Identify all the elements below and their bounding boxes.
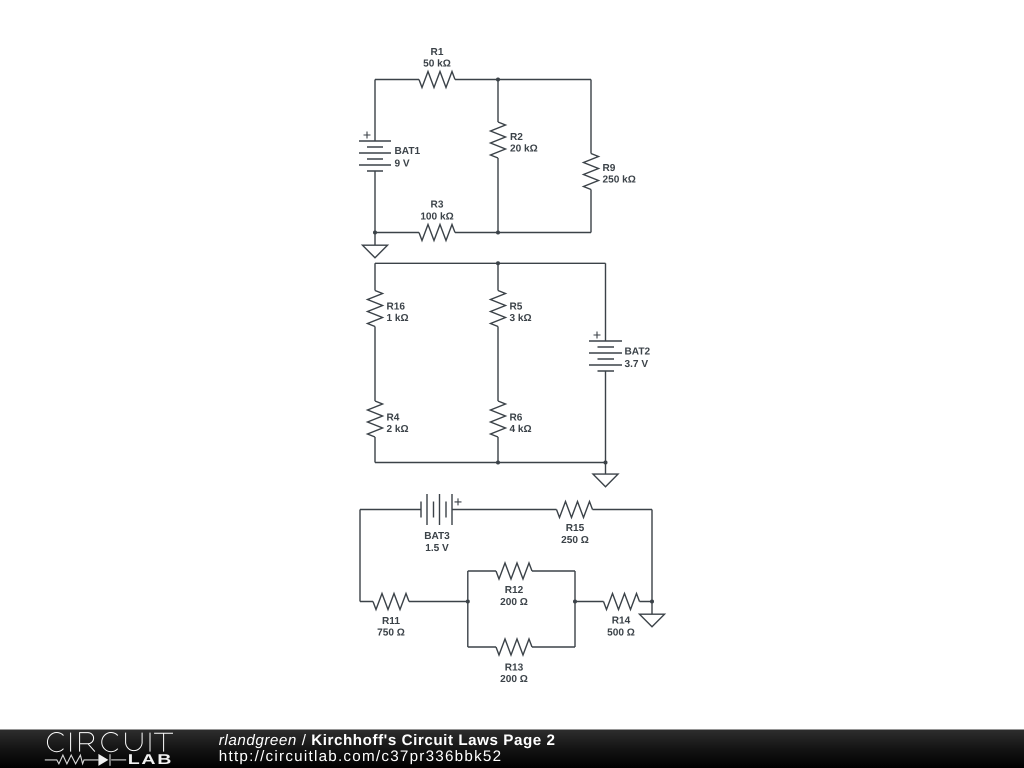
svg-text:R5: R5	[510, 302, 523, 313]
wire bottom left circuit 3	[360, 601, 468, 603]
svg-text:20 kΩ: 20 kΩ	[510, 144, 538, 155]
resistor R1	[419, 72, 455, 88]
svg-text:50 kΩ: 50 kΩ	[423, 59, 451, 70]
svg-text:250 Ω: 250 Ω	[561, 535, 589, 546]
svg-text:R13: R13	[505, 663, 524, 674]
ground circuit 3	[651, 602, 653, 615]
wire bottom rail circuit 2	[375, 462, 606, 464]
svg-text:R11: R11	[382, 616, 400, 627]
resistor R4	[368, 401, 383, 437]
node junction dot	[373, 231, 377, 235]
resistor R5	[491, 291, 506, 327]
ground circuit 1	[374, 233, 376, 246]
node junction dot	[650, 600, 654, 604]
svg-text:R14: R14	[612, 616, 631, 627]
svg-text:R9: R9	[603, 163, 616, 174]
plus sign BAT1	[364, 132, 371, 139]
node junction dot	[496, 78, 500, 82]
svg-text:4 kΩ: 4 kΩ	[510, 424, 532, 435]
plus sign BAT2	[594, 332, 601, 339]
svg-text:R16: R16	[387, 302, 406, 313]
wire middle right circuit 3	[575, 601, 652, 603]
wire right rail circuit 3	[651, 510, 653, 602]
resistor R2	[491, 122, 506, 158]
battery BAT3	[421, 494, 452, 525]
svg-text:3 kΩ: 3 kΩ	[510, 313, 532, 324]
node junction dot	[573, 600, 577, 604]
wire top rail circuit 1	[375, 79, 591, 81]
svg-text:BAT1: BAT1	[395, 146, 421, 157]
wire right rail circuit 1	[590, 80, 592, 233]
resistor R12	[496, 563, 532, 579]
wire left rail circuit 2	[374, 263, 376, 462]
wire left rail circuit 3	[359, 510, 361, 602]
wire parallel box right	[574, 571, 576, 647]
svg-text:3.7 V: 3.7 V	[625, 359, 649, 370]
svg-text:100 kΩ: 100 kΩ	[420, 212, 453, 223]
svg-text:R2: R2	[510, 132, 523, 143]
node junction dot	[496, 261, 500, 265]
node junction dot	[496, 231, 500, 235]
svg-text:500 Ω: 500 Ω	[607, 628, 635, 639]
wire middle rail circuit 2	[497, 263, 499, 462]
svg-text:R1: R1	[431, 47, 444, 58]
svg-text:R12: R12	[505, 585, 524, 596]
resistor R15	[557, 502, 593, 518]
battery BAT2	[589, 341, 622, 371]
resistor R16	[368, 291, 383, 327]
svg-text:2 kΩ: 2 kΩ	[387, 424, 409, 435]
wire R2 branch	[497, 80, 499, 233]
svg-text:BAT2: BAT2	[625, 347, 651, 358]
resistor R9	[584, 154, 599, 190]
node junction dot	[496, 461, 500, 465]
node junction dot	[466, 600, 470, 604]
resistor R13	[496, 639, 532, 655]
svg-text:rlandgreen / Kirchhoff's Circu: rlandgreen / Kirchhoff's Circuit Laws Pa…	[219, 732, 556, 749]
wire bottom rail circuit 1	[375, 232, 591, 234]
footer bar	[0, 730, 1024, 768]
svg-text:250 kΩ: 250 kΩ	[603, 175, 636, 186]
resistor R11	[373, 594, 409, 610]
svg-text:1 kΩ: 1 kΩ	[387, 313, 409, 324]
resistor R3	[419, 225, 455, 241]
wire left rail circuit 1	[374, 80, 376, 233]
battery BAT1	[359, 141, 391, 171]
wire parallel box left	[467, 571, 469, 647]
svg-text:http://circuitlab.com/c37pr336: http://circuitlab.com/c37pr336bbk52	[219, 748, 503, 765]
svg-text:200 Ω: 200 Ω	[500, 674, 528, 685]
wire right rail circuit 2	[605, 263, 607, 462]
svg-text:R15: R15	[566, 523, 585, 534]
resistor R6	[491, 401, 506, 437]
svg-text:9 V: 9 V	[395, 159, 410, 170]
CircuitLab logo CIRCUIT lettering	[47, 733, 173, 752]
wire box top branch	[468, 570, 575, 572]
CircuitLab logo resistor-diode symbol	[45, 754, 126, 766]
plus sign BAT3	[455, 498, 462, 505]
node junction dot	[604, 461, 608, 465]
svg-text:LAB: LAB	[128, 752, 173, 768]
svg-text:R3: R3	[431, 200, 444, 211]
resistor R14	[604, 594, 640, 610]
wire top rail circuit 3	[360, 509, 652, 511]
svg-text:R6: R6	[510, 413, 523, 424]
ground circuit 2	[605, 463, 607, 475]
wire box bottom branch	[468, 646, 575, 648]
CircuitLab logo diode triangle	[98, 754, 108, 766]
svg-text:750 Ω: 750 Ω	[377, 628, 405, 639]
svg-text:BAT3: BAT3	[424, 531, 450, 542]
wire top rail circuit 2	[375, 262, 606, 264]
svg-text:1.5 V: 1.5 V	[425, 543, 449, 554]
svg-text:R4: R4	[387, 413, 400, 424]
svg-text:200 Ω: 200 Ω	[500, 597, 528, 608]
